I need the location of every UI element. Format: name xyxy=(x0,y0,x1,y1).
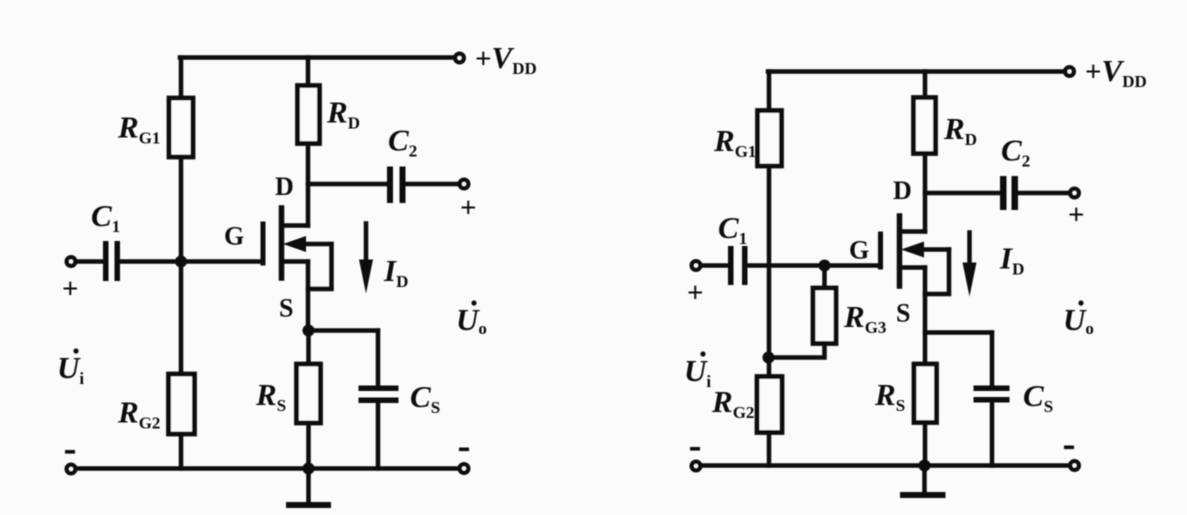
terminal: input terminal (right) xyxy=(692,261,701,270)
svg-text:Ui: Ui xyxy=(57,350,84,388)
wire: RS bottom to ground rail (right) xyxy=(923,423,928,466)
capacitor C2 (left) plates xyxy=(387,167,406,204)
svg-text:S: S xyxy=(279,294,293,323)
svg-text:D: D xyxy=(275,172,294,201)
wire: RS bottom to ground rail xyxy=(306,423,311,469)
wire: drain up to RD xyxy=(306,145,311,226)
wire: CS branch down to plates xyxy=(376,331,381,386)
wire: RG1 branch top rail to resistor xyxy=(179,58,184,101)
wire: RD top to supply rail (right) xyxy=(923,72,928,98)
wire: S node to CS branch xyxy=(309,328,379,333)
capacitor C2 (right) plates xyxy=(1000,176,1018,210)
svg-text:RG1: RG1 xyxy=(713,123,756,161)
svg-text:RG3: RG3 xyxy=(843,299,886,337)
terminal: bottom-right terminal (left) xyxy=(460,464,469,473)
wire: input terminal to C1 (right) xyxy=(701,263,728,268)
svg-text:ID: ID xyxy=(383,253,408,291)
capacitor C1 (right) plates xyxy=(728,246,748,285)
svg-text:RD: RD xyxy=(943,111,977,149)
wire: C1 to gate xyxy=(120,259,261,264)
svg-text:+VDD: +VDD xyxy=(475,40,537,78)
transistor T (left) source lead xyxy=(282,259,308,264)
wire: top supply rail (right circuit) xyxy=(768,69,1065,74)
label Ui (left) xyxy=(57,348,84,388)
transistor T (right) drain lead xyxy=(900,229,925,234)
transistor T (left) channel bar xyxy=(279,208,285,278)
terminal: bottom-right terminal (right) xyxy=(1070,461,1079,470)
current arrow ID (left) xyxy=(359,224,373,294)
wire: S node down to RS xyxy=(306,331,311,365)
label minus bottom-right (left) xyxy=(459,448,469,452)
wire: C2 to output terminal (right) xyxy=(1018,191,1069,196)
current arrow ID (right) xyxy=(963,233,977,297)
svg-text:D: D xyxy=(893,176,912,205)
svg-text:Uo: Uo xyxy=(456,302,487,338)
wire: RG1 branch top (right) xyxy=(767,72,772,113)
node: ground junction dot (right) xyxy=(919,460,931,472)
resistor RD (right) xyxy=(914,98,936,154)
label Uo (right) xyxy=(1063,300,1094,338)
resistor RS (left) xyxy=(297,364,321,423)
resistor RG1 (left) xyxy=(169,98,193,157)
terminal: output terminal top (left) xyxy=(460,180,469,189)
node: RG3 top junction dot (right) xyxy=(819,260,831,272)
label Uo (left) xyxy=(456,300,487,338)
wire: RG2 bottom to ground rail xyxy=(179,434,184,469)
svg-text:+: + xyxy=(460,192,477,224)
transistor T (left) drain lead xyxy=(282,223,308,228)
wire: top supply rail (left circuit) xyxy=(180,55,455,60)
ground symbol (right) xyxy=(903,466,943,496)
label minus bottom-left (right) xyxy=(690,447,700,451)
transistor T (right) source lead xyxy=(900,265,925,270)
terminal: input terminal (left) xyxy=(67,257,76,266)
svg-text:RD: RD xyxy=(326,95,360,133)
svg-text:RG2: RG2 xyxy=(711,384,754,422)
transistor T (left) substrate arrow xyxy=(283,236,332,252)
svg-text:Ui: Ui xyxy=(684,353,711,391)
terminal: +VDD terminal (left) xyxy=(455,54,464,63)
wire: junction down to RG2 xyxy=(179,262,184,375)
wire: RD top to supply rail xyxy=(306,58,311,86)
label minus bottom-left (left) xyxy=(65,450,75,454)
capacitor CS (left) plates xyxy=(359,386,399,404)
wire: RG3 bottom lead to divider junction xyxy=(769,344,825,358)
resistor RG2 (left) xyxy=(169,374,195,434)
svg-text:+VDD: +VDD xyxy=(1085,53,1147,91)
transistor T (right) channel bar xyxy=(897,216,903,286)
svg-text:+: + xyxy=(62,273,79,305)
resistor RD (left) xyxy=(298,86,320,144)
terminal: output terminal top (right) xyxy=(1070,189,1079,198)
svg-text:G: G xyxy=(224,222,244,251)
wire: drain node to C2 xyxy=(308,182,387,187)
wire: RG3 top lead xyxy=(822,266,827,289)
svg-text:+: + xyxy=(1068,199,1085,231)
svg-text:Uo: Uo xyxy=(1063,302,1094,338)
capacitor CS (right) plates xyxy=(974,386,1010,403)
terminal: bottom-left terminal (left) xyxy=(67,465,76,474)
wire: drain node to C2 (right) xyxy=(925,191,1000,196)
wire: source down to S node xyxy=(306,262,311,332)
svg-text:C1: C1 xyxy=(718,210,747,248)
svg-text:RG1: RG1 xyxy=(117,110,160,148)
svg-text:+: + xyxy=(687,277,704,309)
wire: substrate loop to source xyxy=(308,244,332,289)
label minus bottom-right (right) xyxy=(1064,446,1074,450)
wire: bottom ground rail (left circuit) xyxy=(76,466,459,471)
ground symbol (left) xyxy=(289,469,328,506)
wire: source down to S corner (right) xyxy=(923,268,928,365)
svg-text:ID: ID xyxy=(999,241,1024,279)
transistor T (left) gate bar xyxy=(261,224,266,263)
wire: substrate loop to source (right) xyxy=(925,250,949,295)
capacitor C1 (left) plates xyxy=(103,241,120,281)
resistor RG1 (right) xyxy=(758,111,782,167)
svg-text:C2: C2 xyxy=(388,123,417,161)
svg-text:G: G xyxy=(849,236,869,265)
wire: RG1 bottom through crossing to divider junction (right) xyxy=(767,166,772,358)
svg-text:CS: CS xyxy=(410,379,440,417)
node: source node dot (left) xyxy=(303,325,315,337)
terminal: +VDD terminal (right) xyxy=(1065,67,1074,76)
wire: S corner to CS branch (right) xyxy=(925,330,992,335)
wire: CS bottom to ground rail (right) xyxy=(990,403,995,466)
wire: input terminal to C1 xyxy=(76,259,103,264)
svg-text:CS: CS xyxy=(1023,378,1053,416)
wire: junction to RG2 (right) xyxy=(767,358,772,378)
svg-text:RS: RS xyxy=(255,377,286,415)
wire: C2 to output terminal xyxy=(406,182,460,187)
svg-text:RS: RS xyxy=(874,377,905,415)
svg-text:S: S xyxy=(896,299,910,328)
resistor RG3 (right) xyxy=(813,288,836,344)
wire: CS branch down to plates (right) xyxy=(990,333,995,386)
wire: bottom ground rail (right circuit) xyxy=(701,463,1070,468)
svg-text:C1: C1 xyxy=(91,198,120,236)
node: ground junction dot (left) xyxy=(303,463,315,475)
label Ui (right) xyxy=(684,351,711,391)
transistor T (right) substrate arrow xyxy=(901,242,949,258)
node: divider junction dot (right) xyxy=(763,352,775,364)
wire: C1 across divider branch to gate (right) xyxy=(748,263,879,268)
node: gate wire / divider junction dot (left) xyxy=(175,256,187,268)
wire: drain up to RD (right) xyxy=(923,154,928,232)
terminal: bottom-left terminal (right) xyxy=(692,462,701,471)
resistor RS (right) xyxy=(914,364,937,423)
svg-text:C2: C2 xyxy=(1001,133,1030,171)
transistor T (right) gate bar xyxy=(878,234,883,267)
wire: RG1 bottom to gate-node xyxy=(179,157,184,261)
wire: CS bottom to ground rail xyxy=(376,403,381,469)
wire: RG2 bottom to ground rail (right) xyxy=(767,433,772,466)
svg-text:RG2: RG2 xyxy=(117,395,160,433)
resistor RG2 (right) xyxy=(757,377,782,433)
